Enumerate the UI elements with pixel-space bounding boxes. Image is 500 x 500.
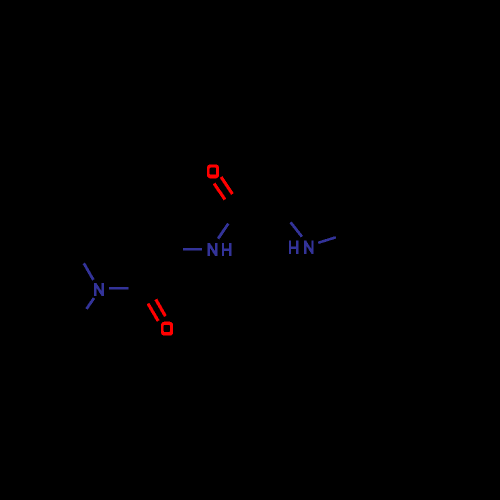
pyrrolidine ring carbons xyxy=(273,158,363,227)
amide label NH xyxy=(209,243,231,256)
ring amine label HN xyxy=(290,241,313,254)
bond C(alpha)-C(=O) xyxy=(239,197,273,210)
oxygen O2 (left amide carbonyl) xyxy=(161,322,173,336)
piperidine ring carbons around left N xyxy=(5,248,76,329)
bond C5-N half xyxy=(336,227,363,237)
phenyl ring xyxy=(348,227,440,315)
right amide carbonyl carbon xyxy=(228,210,239,224)
bond C(alpha)-N half xyxy=(273,197,291,222)
bond CH2-N half xyxy=(154,248,183,252)
bond C5-N(ring) blue half xyxy=(318,237,336,243)
oxygen O1 (top carbonyl) xyxy=(207,164,219,178)
double bond C=O2 line b xyxy=(156,299,166,316)
wire: C-C half of N-C ring bonds xyxy=(76,248,84,263)
bond N-C(down-left) blue half xyxy=(87,298,95,309)
tertiary amine N (piperidine) xyxy=(95,283,102,296)
double bond C=O1 line a xyxy=(221,177,233,194)
bond C(alpha)-N(ring) blue half xyxy=(291,222,302,236)
bond N-C(=O) blue half xyxy=(109,287,129,290)
bond C(=O)-CH2 xyxy=(145,250,154,289)
bond C-N(amide) blue half xyxy=(218,224,228,239)
bond N-C(up-left) blue half xyxy=(84,263,94,280)
bond CH2-N(amide) blue half xyxy=(183,248,202,251)
double bond C=O2 line a xyxy=(148,304,158,321)
bond C=O carbon halves xyxy=(225,194,239,210)
double bond C=O1 line b xyxy=(214,184,225,200)
carbonyl carbon C (left amide) xyxy=(129,287,145,291)
